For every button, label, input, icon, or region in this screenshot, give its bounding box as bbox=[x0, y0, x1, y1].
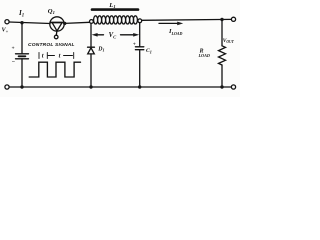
wire resistor to rail bbox=[221, 65, 223, 87]
svg-text:t: t bbox=[59, 52, 61, 59]
svg-text:LOAD: LOAD bbox=[198, 53, 210, 58]
wire top rail right bbox=[142, 18, 232, 21]
wire top rail left bbox=[9, 22, 50, 24]
wire battery drop bbox=[21, 23, 23, 53]
battery plate long lower bbox=[16, 58, 29, 60]
resistor R LOAD bbox=[219, 46, 226, 65]
svg-text:D1: D1 bbox=[97, 46, 104, 52]
terminal control input bbox=[54, 35, 58, 39]
dimension arrow VC bbox=[92, 33, 140, 37]
svg-text:CONTROL SIGNAL: CONTROL SIGNAL bbox=[28, 42, 75, 48]
dimension ticks waveform bbox=[39, 53, 74, 59]
junction diode bottom bbox=[89, 85, 92, 88]
inductor L1 winding bbox=[94, 16, 138, 24]
arrow I LOAD bbox=[159, 22, 183, 26]
wire output drop bbox=[221, 20, 223, 46]
node junction I1 bbox=[20, 21, 23, 24]
transistor Q1 bbox=[50, 17, 64, 36]
inductor L1 core bar bbox=[92, 8, 138, 11]
junction capacitor bottom bbox=[138, 85, 141, 88]
terminal ground left bbox=[5, 85, 9, 89]
wire battery to ground rail bbox=[21, 59, 23, 87]
capacitor C1 bbox=[135, 47, 143, 50]
wire transistor to inductor bbox=[65, 22, 90, 23]
svg-text:+: + bbox=[12, 46, 15, 52]
terminal V+ input bbox=[5, 20, 9, 24]
junction output bbox=[220, 18, 223, 21]
battery V source plate long top bbox=[16, 53, 29, 55]
svg-text:+: + bbox=[133, 42, 136, 48]
wire switch node drop bbox=[90, 23, 92, 46]
terminal ground right bbox=[231, 85, 235, 89]
battery plate short thick bbox=[19, 55, 26, 57]
terminal output bbox=[231, 17, 235, 21]
control waveform bbox=[29, 62, 80, 77]
wire bottom rail bbox=[9, 86, 231, 88]
svg-text:t: t bbox=[42, 52, 44, 59]
svg-text:C1: C1 bbox=[146, 48, 152, 54]
diode D1 bbox=[88, 47, 95, 54]
wire diode to rail bbox=[90, 54, 92, 87]
junction battery bottom bbox=[20, 85, 23, 88]
svg-text:−: − bbox=[12, 60, 16, 66]
wire capacitor to rail bbox=[139, 50, 141, 87]
node inductor right bbox=[138, 19, 142, 23]
junction resistor bottom bbox=[220, 85, 223, 88]
node inductor left bbox=[90, 20, 94, 24]
wire inductor right drop bbox=[139, 23, 141, 47]
junction collector bbox=[63, 22, 66, 25]
